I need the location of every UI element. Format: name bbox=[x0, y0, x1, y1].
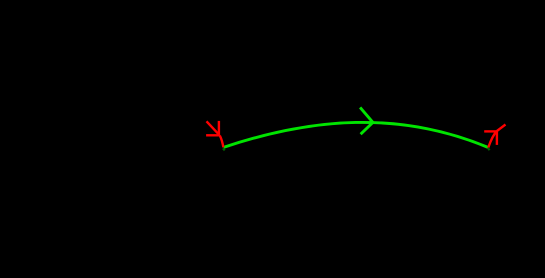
wire: left arrow horizontal barb bbox=[206, 134, 220, 136]
node C: red arrow at right end (outgoing) bbox=[484, 125, 505, 148]
wire: right arrow curved tail from curve end bbox=[488, 131, 497, 148]
wire: dark green stub at left junction bbox=[223, 148, 225, 150]
wire: right arrow diagonal beyond tip bbox=[497, 125, 506, 132]
wire: left arrow curved tail to curve start bbox=[220, 136, 224, 148]
wire: green curve main path bbox=[224, 122, 489, 147]
wire: left arrow shaft bbox=[207, 121, 220, 135]
wire: right arrow vertical barb bbox=[496, 131, 498, 145]
wire: dark green stub at right junction bbox=[488, 148, 490, 150]
node A: green mid-curve arrowhead bbox=[360, 107, 373, 134]
node B: red arrow at left end (incoming) bbox=[206, 121, 223, 147]
wire: right arrow horizontal barb bbox=[484, 130, 497, 132]
wire: left arrow vertical barb bbox=[218, 121, 220, 135]
